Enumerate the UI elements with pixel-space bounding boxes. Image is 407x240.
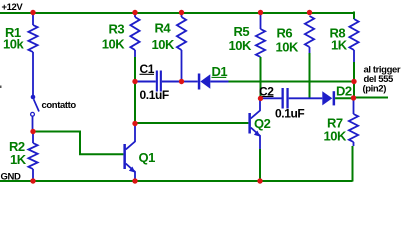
wire C1 right lead [162, 81, 182, 83]
label C2 underline [259, 96, 274, 98]
wire R7 to GND corner [352, 146, 354, 182]
junction top rail / R4 [179, 10, 184, 15]
junction R3 / C1 left [132, 79, 137, 84]
svg-text:GND: GND [1, 172, 21, 183]
svg-text:D2: D2 [336, 84, 352, 99]
svg-text:Q1: Q1 [139, 150, 156, 165]
resistor R5 [256, 29, 265, 57]
wire R2 bottom lead [32, 169, 34, 180]
wire node to Q1 base: vertical [79, 131, 81, 155]
wire D1 to R8 branch (long horizontal) [229, 81, 355, 83]
capacitor C2 [282, 88, 284, 109]
svg-text:10K: 10K [152, 37, 175, 52]
wire R5 top lead [260, 13, 262, 29]
svg-text:R3: R3 [109, 22, 125, 37]
resistor R4 [177, 17, 186, 50]
capacitor C1 [156, 71, 158, 92]
junction R5 / Q2 collector / C2 [258, 96, 263, 101]
wire switch to node [32, 116, 34, 130]
svg-text:+12V: +12V [2, 2, 24, 13]
wire R5 bottom to Q2 collector node [260, 57, 262, 98]
svg-text:contatto: contatto [42, 100, 77, 111]
junction top rail / R6 [307, 10, 312, 15]
junction top rail / R5 [258, 10, 263, 15]
svg-text:1K: 1K [10, 152, 27, 167]
svg-text:D1: D1 [212, 64, 228, 79]
resistor R2 [28, 143, 37, 169]
wire GND bottom rail [0, 180, 353, 182]
svg-text:Q2: Q2 [254, 116, 271, 131]
wire R8 to D1 wire node [353, 62, 355, 82]
resistor R2 lead [32, 132, 34, 143]
wire R6 to C2/D2 wire tee [309, 53, 311, 98]
wire node81 to node98 [353, 82, 355, 98]
junction R4 / C1 right / D1 [179, 79, 184, 84]
transistor Q2 base bar [248, 113, 251, 134]
wire D1 anode lead [210, 81, 228, 83]
switch contatto blade [34, 99, 39, 111]
wire R3 top lead [134, 13, 136, 17]
resistor R1 [28, 25, 37, 52]
transistor Q2 emitter [251, 128, 260, 151]
svg-text:10k: 10k [3, 37, 24, 52]
wire to Q2 base [135, 122, 248, 124]
wire R1 to switch [32, 52, 34, 96]
wire to Q1 base [79, 153, 123, 155]
wire R3 bottom lead [134, 50, 136, 57]
junction switch / R2 / Q1 base wire [30, 129, 35, 134]
transistor Q2 emitter arrow [254, 131, 260, 137]
junction D2 / R7 / trigger out [351, 95, 356, 100]
wire R8 bottom lead [353, 50, 355, 62]
wire C1 node down to Q1 collector node [134, 83, 136, 123]
svg-text:10K: 10K [276, 40, 299, 55]
resistor R3 [130, 17, 139, 50]
wire C2 right lead [289, 97, 323, 99]
wire trigger output [354, 97, 389, 99]
junction Q1 emitter / GND [132, 178, 137, 183]
svg-text:R4: R4 [155, 21, 172, 36]
wire node to Q1 base: horizontal [33, 131, 80, 133]
svg-text:1K: 1K [331, 38, 348, 53]
resistor R6 [305, 16, 314, 47]
diode D2 [322, 91, 332, 105]
junction Q1 collector / Q2 base wire [132, 121, 137, 126]
wire R3 to C1 node [134, 57, 136, 82]
wire R7 bottom lead [353, 142, 355, 146]
wire +12V top rail [0, 12, 354, 14]
wire R1 top lead [32, 13, 34, 25]
resistor R7 [349, 114, 358, 142]
transistor Q1 emitter [126, 164, 135, 180]
wire Q2 emitter to GND [259, 149, 261, 180]
wire C1 left lead [136, 81, 156, 83]
wire top rail corner to R8 [353, 12, 355, 20]
wire R6 bottom lead [309, 47, 311, 53]
transistor Q1 collector [126, 125, 135, 150]
svg-text:0.1uF: 0.1uF [275, 107, 304, 121]
label D1 underline [212, 76, 227, 78]
wire R4 bottom lead to C1/D1 node [181, 50, 183, 82]
diode D1 [198, 74, 201, 90]
svg-text:10K: 10K [102, 37, 125, 52]
resistor R7 top lead [353, 98, 355, 114]
transistor Q1 base bar [123, 144, 126, 169]
switch contatto contact circle [31, 112, 35, 116]
junction Q2 emitter / GND [257, 178, 262, 183]
svg-text:R5: R5 [234, 24, 250, 39]
junction top rail / R1 [30, 10, 35, 15]
label C1 underline [140, 73, 155, 75]
svg-text:10K: 10K [229, 38, 252, 53]
svg-text:R6: R6 [277, 26, 293, 41]
junction R2 / GND [30, 178, 35, 183]
svg-text:0.1uF: 0.1uF [140, 88, 169, 102]
wire C2 left lead [261, 97, 282, 99]
transistor Q1 emitter arrow [129, 167, 135, 173]
wire R4 top lead [181, 13, 183, 17]
switch contatto pivot [31, 95, 36, 100]
junction D1 wire / R8 [351, 79, 356, 84]
wire D2 cathode to node [335, 97, 353, 99]
junction top rail / R3 [132, 10, 137, 15]
left edge artifact mark [0, 86, 2, 89]
resistor R8 [349, 19, 358, 50]
transistor Q2 collector [251, 101, 260, 119]
wire D1 cathode lead [182, 81, 198, 83]
svg-text:(pin2): (pin2) [363, 84, 387, 95]
svg-text:10K: 10K [324, 129, 347, 144]
